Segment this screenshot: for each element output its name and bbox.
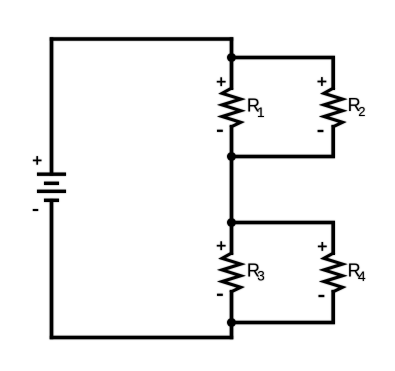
node junction dot top (R1/R2 +) (227, 53, 236, 62)
label R3 (247, 260, 265, 283)
battery plate long (37, 190, 66, 193)
battery - polarity mark (33, 209, 38, 211)
resistor R4 (324, 253, 343, 292)
wire R2 branch top (232, 58, 334, 89)
node junction dot (R1/R2 -) (227, 152, 236, 161)
R4 - polarity mark (319, 295, 325, 297)
R1 + polarity mark (217, 77, 226, 86)
R2 + polarity mark (318, 77, 327, 86)
wire main vertical upper segment (230, 39, 234, 88)
battery plate short (44, 182, 59, 185)
battery + polarity mark (33, 156, 42, 165)
label R1 (247, 95, 265, 120)
node junction dot (R3/R4 +) (227, 218, 236, 227)
label R4 (348, 260, 366, 284)
resistor R3 (222, 253, 241, 292)
battery plate short bottom (44, 199, 59, 202)
wire top horizontal (52, 37, 232, 41)
R1 - polarity mark (217, 130, 223, 132)
battery plate long top (37, 172, 66, 175)
R3 - polarity mark (217, 294, 223, 296)
wire bottom horizontal (52, 336, 232, 340)
resistor R2 (324, 88, 343, 127)
wire left vertical upper (battery + lead) (50, 39, 54, 174)
wire left vertical lower (battery - lead) (50, 201, 54, 338)
wire R2 branch bottom (232, 127, 334, 157)
wire R4 branch bottom (232, 292, 334, 323)
wire mid vertical segment (R1 bottom to R3 top) (230, 127, 234, 254)
R4 + polarity mark (318, 242, 327, 251)
resistor R1 (222, 88, 241, 127)
R3 + polarity mark (217, 241, 226, 250)
wire lower vertical segment (230, 292, 234, 338)
battery B1 (37, 174, 66, 200)
wire R4 branch top (232, 223, 334, 254)
node junction dot bottom (R3/R4 -) (227, 318, 236, 327)
label R2 (348, 95, 366, 119)
R2 - polarity mark (318, 130, 324, 132)
